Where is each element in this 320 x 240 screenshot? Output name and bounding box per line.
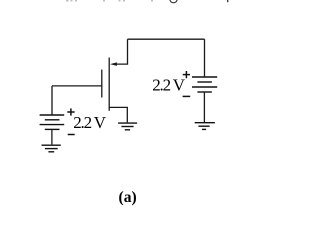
minus sign of V2	[183, 95, 191, 97]
plus sign of V1	[67, 108, 74, 115]
transistor Q1 drain lead with arrowhead	[110, 39, 128, 66]
wire: right vertical to battery	[204, 39, 206, 76]
transistor Q1 gate bar	[101, 70, 103, 98]
svg-text:2.2 V: 2.2 V	[152, 75, 186, 94]
svg-text:(a): (a)	[119, 189, 137, 206]
ground (left)	[42, 145, 61, 152]
ground (right)	[195, 123, 215, 130]
wire: gate lead	[52, 85, 102, 87]
cropped caption text fragments at top	[66, 0, 228, 3]
ground (center)	[118, 123, 137, 130]
wire: top horizontal	[128, 38, 205, 40]
wire: left battery to ground	[51, 129, 53, 144]
wire: left vertical to battery	[51, 86, 53, 115]
svg-text:2.2 V: 2.2 V	[73, 113, 107, 132]
minus sign of V1	[68, 134, 75, 136]
wire: right battery to ground	[203, 92, 205, 122]
plus sign of V2	[183, 71, 190, 78]
transistor Q1 source lead	[109, 107, 127, 122]
transistor Q1 channel line	[108, 58, 110, 111]
battery V2 (right, 2.2 V)	[192, 77, 217, 92]
battery V1 (left, 2.2 V)	[40, 115, 65, 129]
